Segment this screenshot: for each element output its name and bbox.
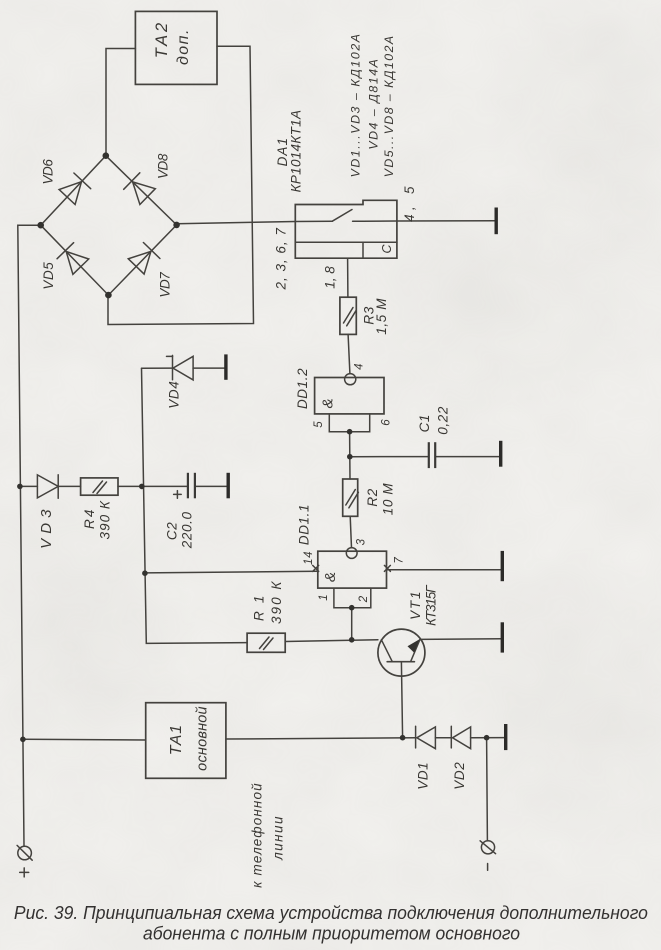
svg-text:R4: R4 [82, 509, 97, 529]
svg-text:Рис. 39. Принципиальная схема: Рис. 39. Принципиальная схема устройства… [14, 902, 648, 923]
svg-text:С2: С2 [165, 522, 180, 540]
svg-text:1,5 М: 1,5 М [374, 298, 389, 335]
svg-text:14: 14 [303, 551, 315, 565]
svg-text:390 К: 390 К [98, 500, 113, 539]
svg-text:1: 1 [318, 594, 330, 601]
svg-text:VD4: VD4 [167, 381, 182, 409]
svg-text:4: 4 [354, 363, 366, 370]
svg-text:6: 6 [380, 419, 392, 426]
svg-text:0,22: 0,22 [435, 406, 450, 435]
svg-text:390 К: 390 К [269, 581, 284, 624]
svg-text:VT1: VT1 [408, 591, 423, 620]
svg-text:2: 2 [358, 595, 370, 603]
svg-text:VD1: VD1 [415, 762, 430, 790]
svg-text:DD1.1: DD1.1 [297, 504, 312, 545]
svg-text:абонента с полным приоритетом: абонента с полным приоритетом основного [143, 923, 520, 944]
svg-text:к телефонной: к телефонной [250, 783, 265, 888]
svg-text:КР1014КТ1А: КР1014КТ1А [288, 109, 303, 192]
svg-text:VD4 – Д814А: VD4 – Д814А [367, 59, 381, 150]
svg-text:2, 3, 6, 7: 2, 3, 6, 7 [274, 228, 289, 291]
svg-text:ТА2: ТА2 [153, 22, 171, 58]
svg-text:DD1.2: DD1.2 [295, 368, 310, 409]
svg-text:VD1...VD3 – КД102А: VD1...VD3 – КД102А [349, 33, 363, 177]
svg-text:&: & [322, 571, 339, 582]
svg-text:VD6: VD6 [41, 159, 56, 185]
svg-text:3: 3 [356, 538, 368, 545]
svg-text:основной: основной [195, 706, 211, 771]
svg-text:VD8: VD8 [156, 153, 171, 179]
svg-text:КТ315Г: КТ315Г [423, 584, 438, 626]
svg-text:7: 7 [394, 557, 406, 564]
svg-text:VD5: VD5 [41, 262, 56, 290]
svg-text:ТА1: ТА1 [168, 724, 185, 755]
svg-text:С: С [380, 244, 394, 254]
svg-text:VD7: VD7 [158, 272, 173, 298]
svg-text:С1: С1 [417, 414, 432, 432]
svg-text:VD5...VD8 – КД102А: VD5...VD8 – КД102А [382, 35, 396, 177]
svg-text:доп.: доп. [175, 29, 192, 65]
svg-text:1, 8: 1, 8 [323, 266, 338, 289]
svg-text:5: 5 [313, 421, 325, 428]
svg-text:линии: линии [270, 816, 285, 861]
svg-text:VD2: VD2 [452, 762, 467, 790]
svg-text:R2: R2 [365, 488, 380, 506]
svg-text:10 М: 10 М [381, 483, 396, 516]
svg-text:220.0: 220.0 [179, 511, 194, 549]
svg-text:&: & [319, 398, 336, 409]
svg-text:VD3: VD3 [38, 509, 55, 549]
